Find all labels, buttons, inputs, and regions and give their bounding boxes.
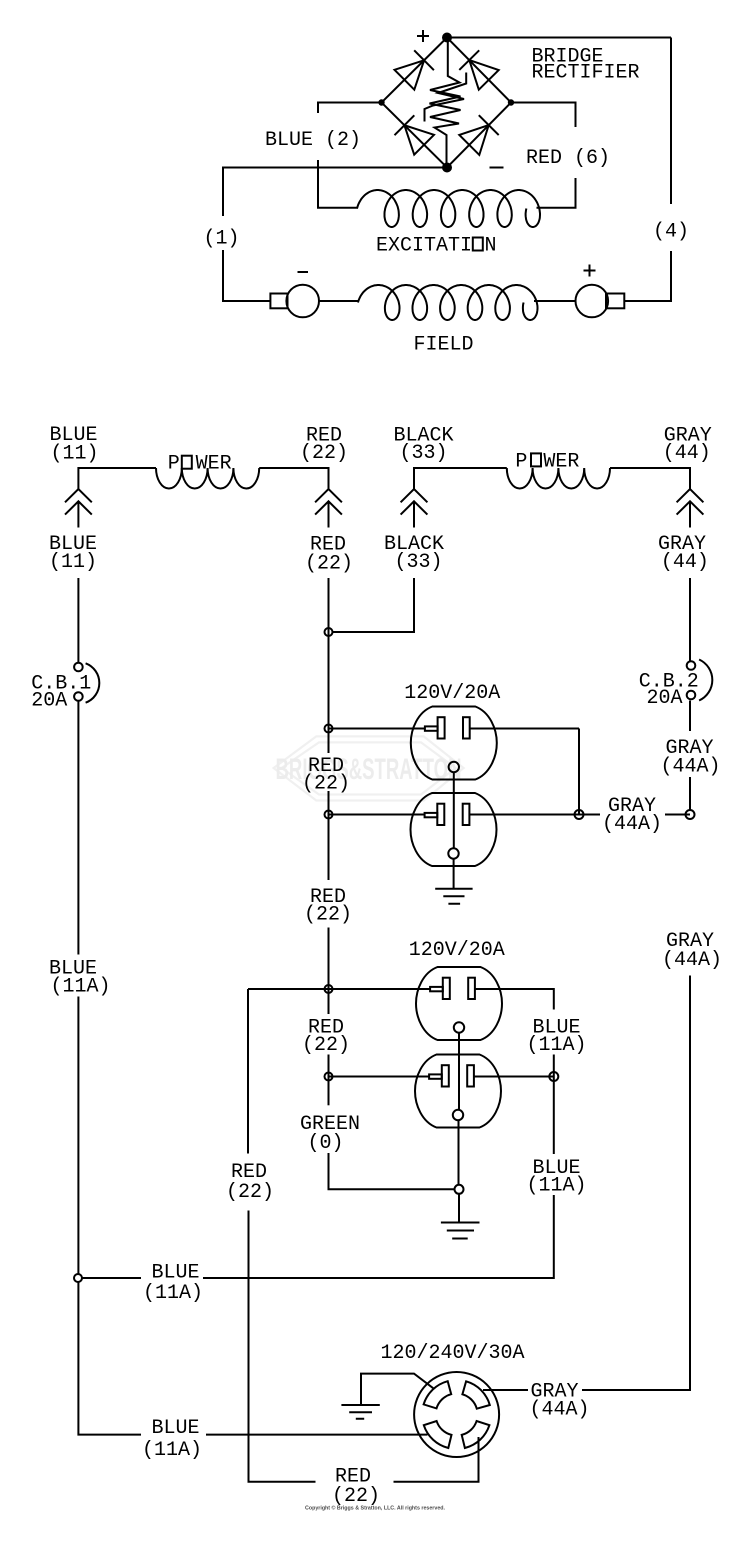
- SECTION-BOTTOM: [74, 976, 690, 1509]
- circuit breaker CB2: [687, 661, 696, 670]
- wire: red (6) drop to excitation winding: [537, 178, 576, 208]
- wire: red trunk below label to black jog node: [328, 578, 330, 753]
- wire: gray label gap to gray trunk: [665, 814, 690, 816]
- svg-text:120V/20A: 120V/20A: [404, 682, 500, 705]
- circuit breaker CB1: [74, 663, 83, 672]
- svg-text:(22): (22): [302, 773, 350, 796]
- wire: bridge left vertex to blue (2) drop: [318, 103, 382, 114]
- wire: red trunk segment below duplex1: [328, 791, 330, 880]
- svg-text:(0): (0): [307, 1132, 343, 1155]
- SECTION-TOP: [203, 30, 689, 357]
- svg-text:BLUE: BLUE: [151, 1417, 199, 1440]
- wire: ground node to ground symbol: [458, 1194, 460, 1223]
- svg-text:(11A): (11A): [50, 975, 110, 998]
- wire: duplex1 top hot to riser: [470, 728, 579, 730]
- svg-text:Copyright © Briggs & Stratton,: Copyright © Briggs & Stratton, LLC. All …: [305, 1505, 445, 1512]
- svg-text:(11A): (11A): [143, 1282, 203, 1305]
- node junction blue trunk: [74, 1274, 82, 1282]
- node: bridge left ac vertex: [378, 99, 384, 105]
- svg-text:(44A): (44A): [662, 949, 722, 972]
- field - terminal circle: [286, 285, 319, 318]
- node junction red/black: [325, 628, 333, 636]
- wire: duplex2 ground stem to node: [458, 1120, 460, 1185]
- diode D2 (right to + vertex): [459, 50, 498, 89]
- wire: red trunk segment to duplex2: [328, 928, 330, 1015]
- wire: C.B.1 to blue (11a) label: [77, 701, 79, 955]
- resistor R2 inside bridge (zigzag b): [425, 73, 467, 122]
- svg-text:120V/20A: 120V/20A: [409, 939, 505, 962]
- wire: red feeder corner to duplex2 top neutral: [248, 988, 430, 990]
- wire: red feeder lower segment: [249, 1211, 316, 1482]
- twist-lock slot NE: [462, 1381, 489, 1408]
- node junction red trunk duplex1 top: [325, 725, 333, 733]
- twist-lock slot NW: [424, 1381, 452, 1408]
- wire: gray trunk to C.B.2: [689, 578, 691, 662]
- svg-text:P: P: [168, 453, 180, 476]
- receptacle duplex 2 top: [416, 967, 502, 1040]
- svg-text:(11A): (11A): [526, 1034, 586, 1057]
- node junction red trunk duplex1 bottom: [325, 811, 333, 819]
- wire: field winding to + terminal: [534, 300, 576, 302]
- wire: (1) trunk to field - terminal: [223, 250, 270, 301]
- ground symbol duplex 1: [435, 889, 472, 904]
- connector pair blue (11): [65, 489, 92, 528]
- twist-lock receptacle outline: [414, 1372, 499, 1457]
- svg-text:FIELD: FIELD: [414, 334, 474, 357]
- wire: duplex2 riser segment: [553, 1055, 555, 1155]
- svg-text:(44A): (44A): [660, 756, 720, 779]
- svg-text:BLUE: BLUE: [151, 1261, 199, 1284]
- wire: power winding 2 to gray (44) corner: [610, 468, 690, 489]
- svg-text:RECTIFIER: RECTIFIER: [532, 62, 640, 85]
- svg-text:(11): (11): [49, 551, 97, 574]
- wire: duplex1 ground link: [453, 772, 455, 849]
- connector pair red (22): [315, 489, 342, 528]
- wire: left trunk to blue node: [77, 997, 79, 1275]
- field - terminal rectangle: [270, 294, 287, 309]
- diode D3 (- vertex to left): [395, 115, 435, 154]
- label - of field: [298, 271, 309, 273]
- wire: bridge + output to right trunk (4): [447, 37, 671, 39]
- svg-text:20A: 20A: [31, 690, 67, 713]
- bridge rectifier diamond wires: [382, 38, 512, 168]
- wire: duplex1 ground stem: [453, 858, 455, 889]
- svg-text:(22): (22): [305, 552, 353, 575]
- svg-text:EXCITATI: EXCITATI: [376, 235, 472, 258]
- svg-text:WER: WER: [196, 453, 232, 476]
- wire: red trunk segment to duplex2 bottom: [328, 1055, 330, 1106]
- field + terminal rectangle: [606, 294, 624, 309]
- wire: blue (11) corner to power winding 1: [78, 468, 156, 489]
- wire: blue trunk to C.B.1: [77, 578, 79, 662]
- svg-text:(44): (44): [661, 551, 709, 574]
- wire: duplex1 bottom hot to gray label gap: [469, 814, 600, 816]
- svg-text:(22): (22): [304, 904, 352, 927]
- svg-text:20A: 20A: [647, 687, 683, 710]
- node: bridge - vertex: [442, 163, 452, 173]
- svg-text:(44): (44): [663, 442, 711, 465]
- svg-text:N: N: [485, 235, 497, 258]
- wire: green run to ground node: [329, 1153, 455, 1189]
- wire: blue run to duplex2 riser: [203, 1195, 554, 1278]
- node junction gray trunk: [686, 810, 695, 819]
- excitation winding coil: [357, 190, 540, 227]
- svg-text:(44A): (44A): [602, 813, 662, 836]
- receptacle duplex 2 bottom: [415, 1055, 501, 1128]
- power winding 1 (4 humps): [156, 468, 259, 489]
- svg-text:(33): (33): [399, 442, 447, 465]
- wire: red run to twist-lock leg: [394, 1437, 479, 1482]
- node junction duplex1 hot riser: [575, 810, 584, 819]
- label + of bridge: [417, 30, 429, 42]
- wire: red trunk node to duplex1 bottom neutral: [329, 814, 425, 816]
- svg-text:(11A): (11A): [142, 1439, 202, 1462]
- wire: gray trunk down to twist-lock: [582, 976, 690, 1391]
- wire: field - terminal to field winding: [319, 300, 358, 302]
- svg-text:(11A): (11A): [526, 1175, 586, 1198]
- field + terminal circle: [576, 285, 609, 318]
- diode D1 (left to + vertex): [395, 50, 434, 89]
- svg-text:(22): (22): [226, 1181, 274, 1204]
- diode D4 (- vertex to right): [459, 115, 498, 155]
- svg-text:(44A): (44A): [530, 1399, 590, 1422]
- field winding coil: [358, 285, 538, 320]
- svg-text:WER: WER: [543, 450, 579, 473]
- svg-text:(11): (11): [50, 442, 98, 465]
- wire: duplex1 riser: [578, 729, 580, 815]
- wire: C.B.2 to gray (44a) label: [689, 701, 691, 732]
- svg-text:120/240V/30A: 120/240V/30A: [380, 1342, 524, 1365]
- SECTION-MID: [31, 424, 720, 955]
- svg-text:BLUE (2): BLUE (2): [265, 129, 361, 152]
- svg-text:(22): (22): [302, 1034, 350, 1057]
- connector pair black (33): [401, 489, 428, 528]
- ground symbol duplex 2: [441, 1223, 480, 1239]
- svg-text:(1): (1): [203, 228, 239, 251]
- receptacle duplex 1 top: [411, 707, 497, 780]
- wire: left trunk lower segment: [78, 1282, 141, 1435]
- ground symbol twist-lock: [341, 1405, 379, 1419]
- wire: power winding 1 to red (22) corner: [259, 468, 328, 489]
- wire: twist-lock ground lead: [361, 1374, 434, 1405]
- resistor R1 inside bridge (zigzag a): [430, 38, 461, 168]
- wire: duplex2 bottom hot to riser: [474, 1076, 554, 1078]
- node: bridge right ac vertex: [508, 99, 514, 105]
- svg-text:(22): (22): [300, 442, 348, 465]
- wire: red trunk node to duplex2 bottom neutral: [329, 1076, 430, 1078]
- connector pair gray (44): [677, 489, 704, 528]
- wire: red trunk node to duplex1 top neutral: [329, 728, 425, 730]
- node junction duplex2 riser: [549, 1072, 558, 1081]
- wire: black (33) drop to red trunk: [333, 578, 415, 632]
- node junction ground duplex2: [455, 1185, 464, 1194]
- node junction red trunk duplex2 bottom: [325, 1073, 333, 1081]
- label - of bridge: [490, 167, 504, 169]
- twist-lock slot SW: [424, 1421, 452, 1448]
- watermark: [274, 736, 464, 800]
- wire: twist-lock hot to gray label: [483, 1389, 528, 1391]
- node junction red trunk duplex2 top: [325, 985, 333, 993]
- power winding 2 (4 humps): [507, 468, 610, 489]
- node: bridge + vertex: [442, 33, 452, 43]
- svg-text:RED (6): RED (6): [526, 147, 610, 170]
- wire: blue node to label gap: [82, 1277, 141, 1279]
- svg-text:(33): (33): [394, 551, 442, 574]
- twist-lock slot SE: [462, 1421, 490, 1448]
- svg-text:(4): (4): [653, 221, 689, 244]
- wire: gray trunk label to node: [689, 777, 691, 810]
- wire: right trunk (4) upper segment: [670, 38, 672, 205]
- wire: blue (2) drop to excitation winding: [318, 160, 358, 208]
- wire: duplex2 top hot to riser: [475, 989, 554, 1010]
- label + of field: [584, 265, 596, 277]
- wire: duplex2 ground link: [458, 1032, 460, 1110]
- wire: blue run 2 to twist-lock: [206, 1434, 428, 1436]
- wire: bridge - vertex to (1) trunk: [223, 168, 447, 217]
- wire: right trunk (4) lower segment to field + terminal: [625, 251, 672, 301]
- wire: black (33) corner to power winding 2: [414, 468, 507, 489]
- svg-text:P: P: [515, 450, 527, 473]
- wire: bridge right vertex to red (6) drop: [511, 103, 576, 128]
- wire: red feeder trunk upper segment: [247, 989, 249, 1154]
- receptacle duplex 1 bottom: [411, 793, 497, 866]
